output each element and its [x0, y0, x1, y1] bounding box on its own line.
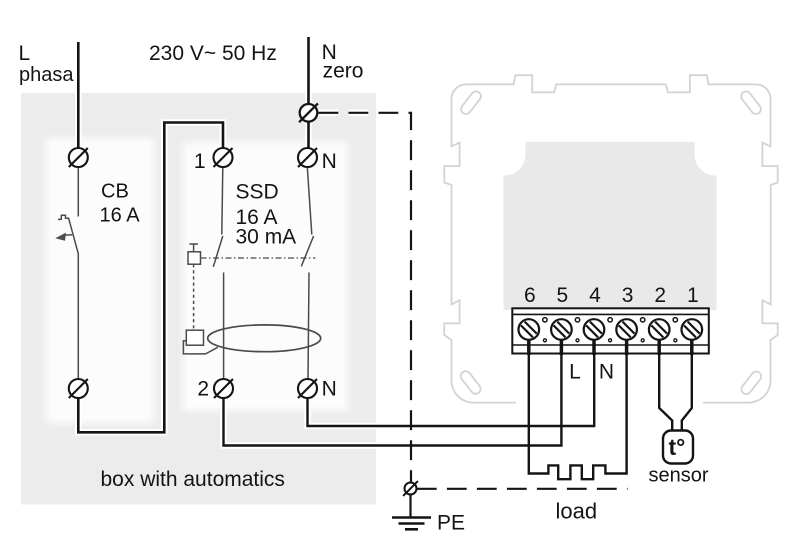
svg-text:2: 2 — [654, 284, 666, 307]
svg-text:6: 6 — [524, 284, 536, 307]
svg-text:t°: t° — [669, 434, 686, 460]
svg-text:2: 2 — [197, 378, 209, 401]
svg-text:L: L — [19, 42, 31, 65]
svg-text:sensor: sensor — [649, 465, 709, 487]
svg-text:N: N — [322, 378, 337, 401]
svg-text:16 A: 16 A — [100, 205, 141, 227]
svg-text:5: 5 — [557, 284, 569, 307]
svg-text:SSD: SSD — [236, 181, 279, 204]
svg-text:N: N — [599, 361, 614, 384]
svg-text:CB: CB — [101, 181, 129, 203]
svg-text:L: L — [569, 361, 581, 384]
svg-text:230 V~ 50 Hz: 230 V~ 50 Hz — [149, 42, 277, 65]
svg-text:box with automatics: box with automatics — [101, 468, 285, 491]
svg-text:1: 1 — [194, 150, 206, 173]
svg-text:N: N — [322, 150, 337, 173]
svg-text:30 mA: 30 mA — [236, 226, 297, 249]
svg-text:1: 1 — [687, 284, 699, 307]
svg-text:3: 3 — [622, 284, 634, 307]
svg-text:load: load — [556, 499, 598, 524]
svg-text:4: 4 — [589, 284, 601, 307]
svg-text:PE: PE — [437, 512, 465, 535]
svg-text:zero: zero — [323, 60, 364, 83]
svg-text:phasa: phasa — [19, 64, 74, 86]
